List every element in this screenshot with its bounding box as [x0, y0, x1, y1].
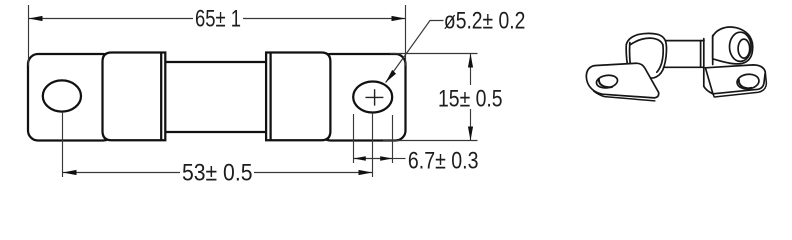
svg-text:6.7± 0.3: 6.7± 0.3: [408, 148, 479, 175]
svg-text:53± 0.5: 53± 0.5: [182, 160, 253, 187]
svg-text:15± 0.5: 15± 0.5: [438, 86, 503, 113]
svg-text:65± 1: 65± 1: [195, 6, 241, 33]
svg-text:ø5.2± 0.2: ø5.2± 0.2: [444, 8, 526, 35]
